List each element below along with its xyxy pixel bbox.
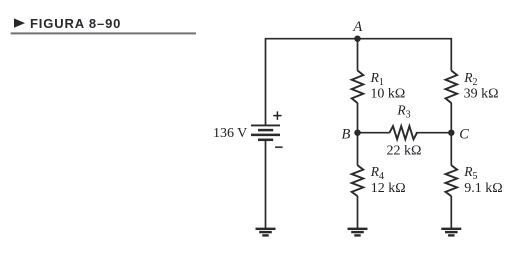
svg-text:FIGURA 8–90: FIGURA 8–90	[30, 16, 121, 31]
wire R2 to node C	[450, 103, 452, 133]
wire R3 to node C	[416, 132, 452, 134]
resistor R1	[352, 71, 364, 104]
svg-text:R3: R3	[396, 103, 410, 121]
svg-text:R4: R4	[370, 164, 384, 182]
svg-text:R5: R5	[463, 164, 477, 182]
wire top horizontal from battery + to node A to R2 branch	[266, 38, 452, 40]
resistor R4	[352, 165, 364, 196]
wire node B to R3	[358, 132, 390, 134]
node A	[354, 36, 360, 42]
svg-text:R2: R2	[463, 70, 477, 88]
resistor R5	[446, 165, 458, 196]
caption underline	[11, 32, 196, 34]
wire top right corner down to R2	[450, 38, 452, 71]
wire R1 to node B	[357, 103, 359, 133]
figure caption FIGURA 8-90	[14, 16, 121, 31]
svg-text:10 kΩ: 10 kΩ	[370, 86, 405, 101]
wire left branch top (battery + lead)	[265, 38, 267, 125]
wire node A down to R1	[357, 39, 359, 71]
wire node B down to R4	[357, 133, 359, 166]
wire R4 to ground	[357, 196, 359, 228]
svg-text:39 kΩ: 39 kΩ	[464, 87, 499, 102]
ground (battery)	[256, 229, 276, 236]
node C	[448, 130, 454, 136]
battery polarity -	[275, 146, 283, 148]
svg-text:R1: R1	[370, 70, 384, 88]
battery polarity +	[273, 111, 281, 119]
svg-text:A: A	[352, 19, 362, 35]
resistor R3	[390, 126, 418, 139]
svg-text:9.1 kΩ: 9.1 kΩ	[464, 181, 502, 196]
node B	[354, 130, 360, 136]
wire node C down to R5	[450, 133, 452, 166]
ground (node C branch)	[441, 229, 461, 236]
ground (node B branch)	[348, 229, 368, 236]
battery VS 136 V	[251, 125, 280, 139]
resistor R2	[446, 71, 458, 104]
svg-text:136 V: 136 V	[213, 126, 247, 141]
svg-text:B: B	[341, 126, 350, 142]
wire R5 to ground	[450, 196, 452, 228]
svg-text:22 kΩ: 22 kΩ	[387, 144, 422, 159]
wire left branch bottom (battery - lead to ground)	[265, 141, 267, 229]
svg-text:12 kΩ: 12 kΩ	[371, 181, 406, 196]
svg-text:C: C	[459, 126, 469, 142]
